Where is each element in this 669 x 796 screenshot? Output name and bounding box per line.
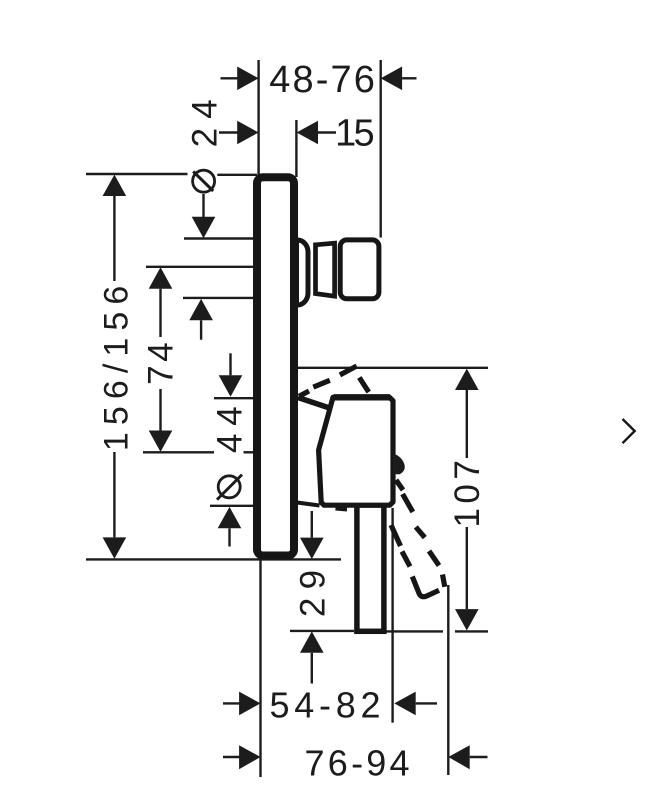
dimension 54-82 arrows: [223, 702, 241, 704]
adapter cone top edge: [298, 398, 331, 409]
dimension 48-76 arrows: [221, 77, 239, 79]
wall reference line top: [86, 173, 188, 175]
plate bottom reference line: [86, 558, 341, 560]
arrow up at mid level: [189, 299, 213, 320]
lever up dashed position: [299, 366, 369, 396]
extension line 48-76 right: [380, 60, 382, 238]
svg-text:15: 15: [335, 112, 373, 154]
svg-text:74: 74: [141, 339, 180, 385]
svg-text:76-94: 76-94: [305, 742, 413, 783]
knob head: [340, 240, 379, 299]
svg-text:44: 44: [210, 399, 249, 453]
svg-text:24: 24: [186, 90, 225, 147]
line 74 top level: [146, 266, 255, 268]
reference line 107 bottom: [290, 630, 354, 632]
dimension diameter symbol top: [193, 170, 215, 192]
svg-text:107: 107: [448, 456, 487, 528]
dimension 24 arrow: [219, 131, 239, 133]
svg-text:29: 29: [294, 562, 333, 618]
body notch: [336, 508, 348, 509]
dimension diameter symbol bottom: [218, 476, 240, 498]
line mid level: [183, 297, 255, 299]
dimension 76-94 arrows: [223, 756, 241, 758]
extension line lever swing: [447, 585, 449, 775]
plate escutcheon: [257, 177, 294, 555]
valve body top edge: [334, 394, 391, 400]
knob stem: [316, 243, 335, 296]
dimension 44 arrows: [229, 353, 231, 375]
extension line 15: [295, 120, 297, 177]
extension line bottom left: [259, 560, 261, 778]
line hole top level: [184, 237, 255, 239]
lever pivot tab: [393, 454, 405, 475]
adapter cone bottom edge: [297, 503, 320, 506]
dimension 156/156 arrows: [103, 175, 127, 559]
reference line 107 top: [298, 367, 488, 369]
line hole bottom level: [210, 505, 256, 507]
line 74 bottom level: [143, 451, 214, 453]
knob dome: [297, 240, 309, 305]
dimension 107 arrows: [455, 369, 479, 390]
svg-text:48-76: 48-76: [269, 59, 377, 101]
dimension 74 arrows: [149, 267, 173, 288]
svg-text:156/156: 156/156: [97, 279, 135, 452]
extension line 48-76 left: [257, 60, 259, 178]
carousel next chevron: [623, 419, 635, 443]
line 44 top level: [214, 397, 255, 399]
lever down dashed position: [391, 480, 445, 597]
dimension 15 arrow: [297, 121, 318, 145]
valve body: [319, 397, 393, 505]
dimension 29 arrows: [311, 511, 313, 538]
extension line body right: [391, 508, 393, 723]
svg-text:54-82: 54-82: [269, 685, 385, 726]
lever handle solid: [357, 505, 384, 631]
